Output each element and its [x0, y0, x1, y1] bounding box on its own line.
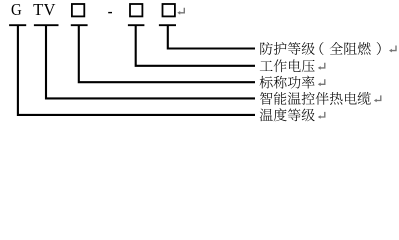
paragraph return mark after 温度等级 [318, 112, 325, 119]
wire from box2 to 工作电压 [136, 26, 255, 66]
paragraph return mark after 防护等级（全阻燃） [389, 46, 396, 53]
paragraph return mark after box 3 [177, 8, 184, 15]
wire from G to 温度等级 [18, 26, 255, 115]
box 3 (protection grade code) [163, 4, 175, 16]
label 智能温控伴热电缆 [260, 92, 371, 105]
underline bar under G [9, 24, 26, 26]
label 温度等级 [260, 108, 315, 121]
box 2 (working voltage code) [130, 4, 142, 16]
hyphen separator [108, 12, 112, 13]
paragraph return mark after 智能温控伴热电缆 [374, 95, 381, 102]
paragraph return mark after 标称功率 [318, 79, 325, 86]
label 防护等级（全阻燃） [260, 42, 380, 55]
wire from TV to 智能温控伴热电缆 [46, 26, 255, 98]
box 1 (nominal power code) [72, 4, 84, 16]
svg-text:G: G [11, 1, 22, 19]
label 工作电压 [260, 59, 315, 72]
wire from box1 to 标称功率 [79, 26, 255, 82]
svg-text:TV: TV [33, 0, 56, 19]
underline bar under box 1 [71, 24, 88, 26]
wire from box3 to 防护等级 [168, 26, 255, 49]
underline bar under box 3 [159, 24, 176, 26]
paragraph return mark after 工作电压 [318, 63, 325, 70]
underline bar under TV [34, 24, 59, 26]
underline bar under box 2 [128, 24, 144, 26]
label 标称功率 [260, 76, 315, 89]
